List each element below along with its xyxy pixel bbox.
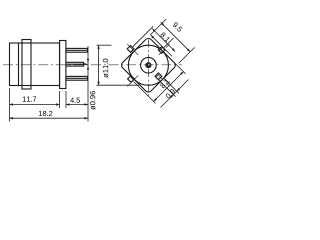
pin bottom xyxy=(66,76,88,80)
centerline diagonal SW segment xyxy=(127,75,138,86)
ext SE from pin BR left corner xyxy=(157,78,176,97)
label 8.1 NE xyxy=(160,32,170,42)
ext SE from pin BR right corner xyxy=(163,78,179,94)
label dia 11.0 xyxy=(103,59,108,78)
extension line body left xyxy=(9,88,11,122)
label 4.5 xyxy=(70,98,80,103)
dimension dia11 line xyxy=(98,45,100,85)
pin TR xyxy=(158,47,165,54)
label dia 0.96 xyxy=(90,91,95,110)
centerline horizontal xyxy=(3,64,182,66)
label 9.5 xyxy=(172,22,183,33)
extension line flange left xyxy=(59,91,61,108)
ext NE from top corner xyxy=(150,19,166,35)
ext NE from right corner xyxy=(179,47,195,63)
center contact dot xyxy=(145,62,151,68)
centerline diagonal SE segment xyxy=(159,75,170,86)
pin BR xyxy=(155,73,162,80)
centerline diagonal NW segment xyxy=(127,44,138,55)
extension line flange right xyxy=(65,91,67,108)
pin TL xyxy=(127,46,134,53)
dimension 0.9 line xyxy=(161,80,189,108)
pin top xyxy=(66,48,88,52)
bayonet band xyxy=(22,40,31,90)
ext NE from pin TR xyxy=(164,38,174,48)
pin BL inner edge xyxy=(131,77,134,80)
dimension 8.1 SE line xyxy=(154,72,184,102)
dimension 8.1 NE line xyxy=(152,29,175,52)
dim 0.96 arrows xyxy=(87,59,89,62)
body front ring line xyxy=(18,43,20,86)
dimension 11.7 line xyxy=(10,104,60,106)
label 18.2 xyxy=(39,111,52,116)
ext SE from pin TR xyxy=(164,52,186,74)
dimension 9.5 line xyxy=(161,22,191,52)
body outline xyxy=(10,43,60,86)
edge offset line NE with arrow xyxy=(151,35,172,56)
pin BR inner edge xyxy=(156,74,159,77)
label 0.9 xyxy=(165,88,176,99)
extension line pin tip xyxy=(87,46,89,122)
ext NE from pin TL xyxy=(133,26,153,46)
ext SE from pin BL xyxy=(134,82,156,104)
label 8.1 SE xyxy=(160,78,170,88)
pin TL inner edge xyxy=(130,47,133,50)
flange xyxy=(60,41,66,89)
centerline diagonal NE segment xyxy=(159,44,170,55)
diamond outline xyxy=(120,37,177,94)
label 11.7 xyxy=(23,97,36,102)
centerline vertical right view xyxy=(147,40,149,98)
pin middle xyxy=(66,62,84,66)
dimension 4.5 line xyxy=(66,104,88,106)
ext dia11 bottom xyxy=(97,84,140,86)
pin TR inner edge xyxy=(160,48,163,51)
circle inner xyxy=(141,57,157,73)
circle outer xyxy=(128,45,168,85)
pin BL xyxy=(128,76,135,83)
dimension 18.2 line xyxy=(10,117,89,119)
ext dia11 top xyxy=(97,44,112,46)
